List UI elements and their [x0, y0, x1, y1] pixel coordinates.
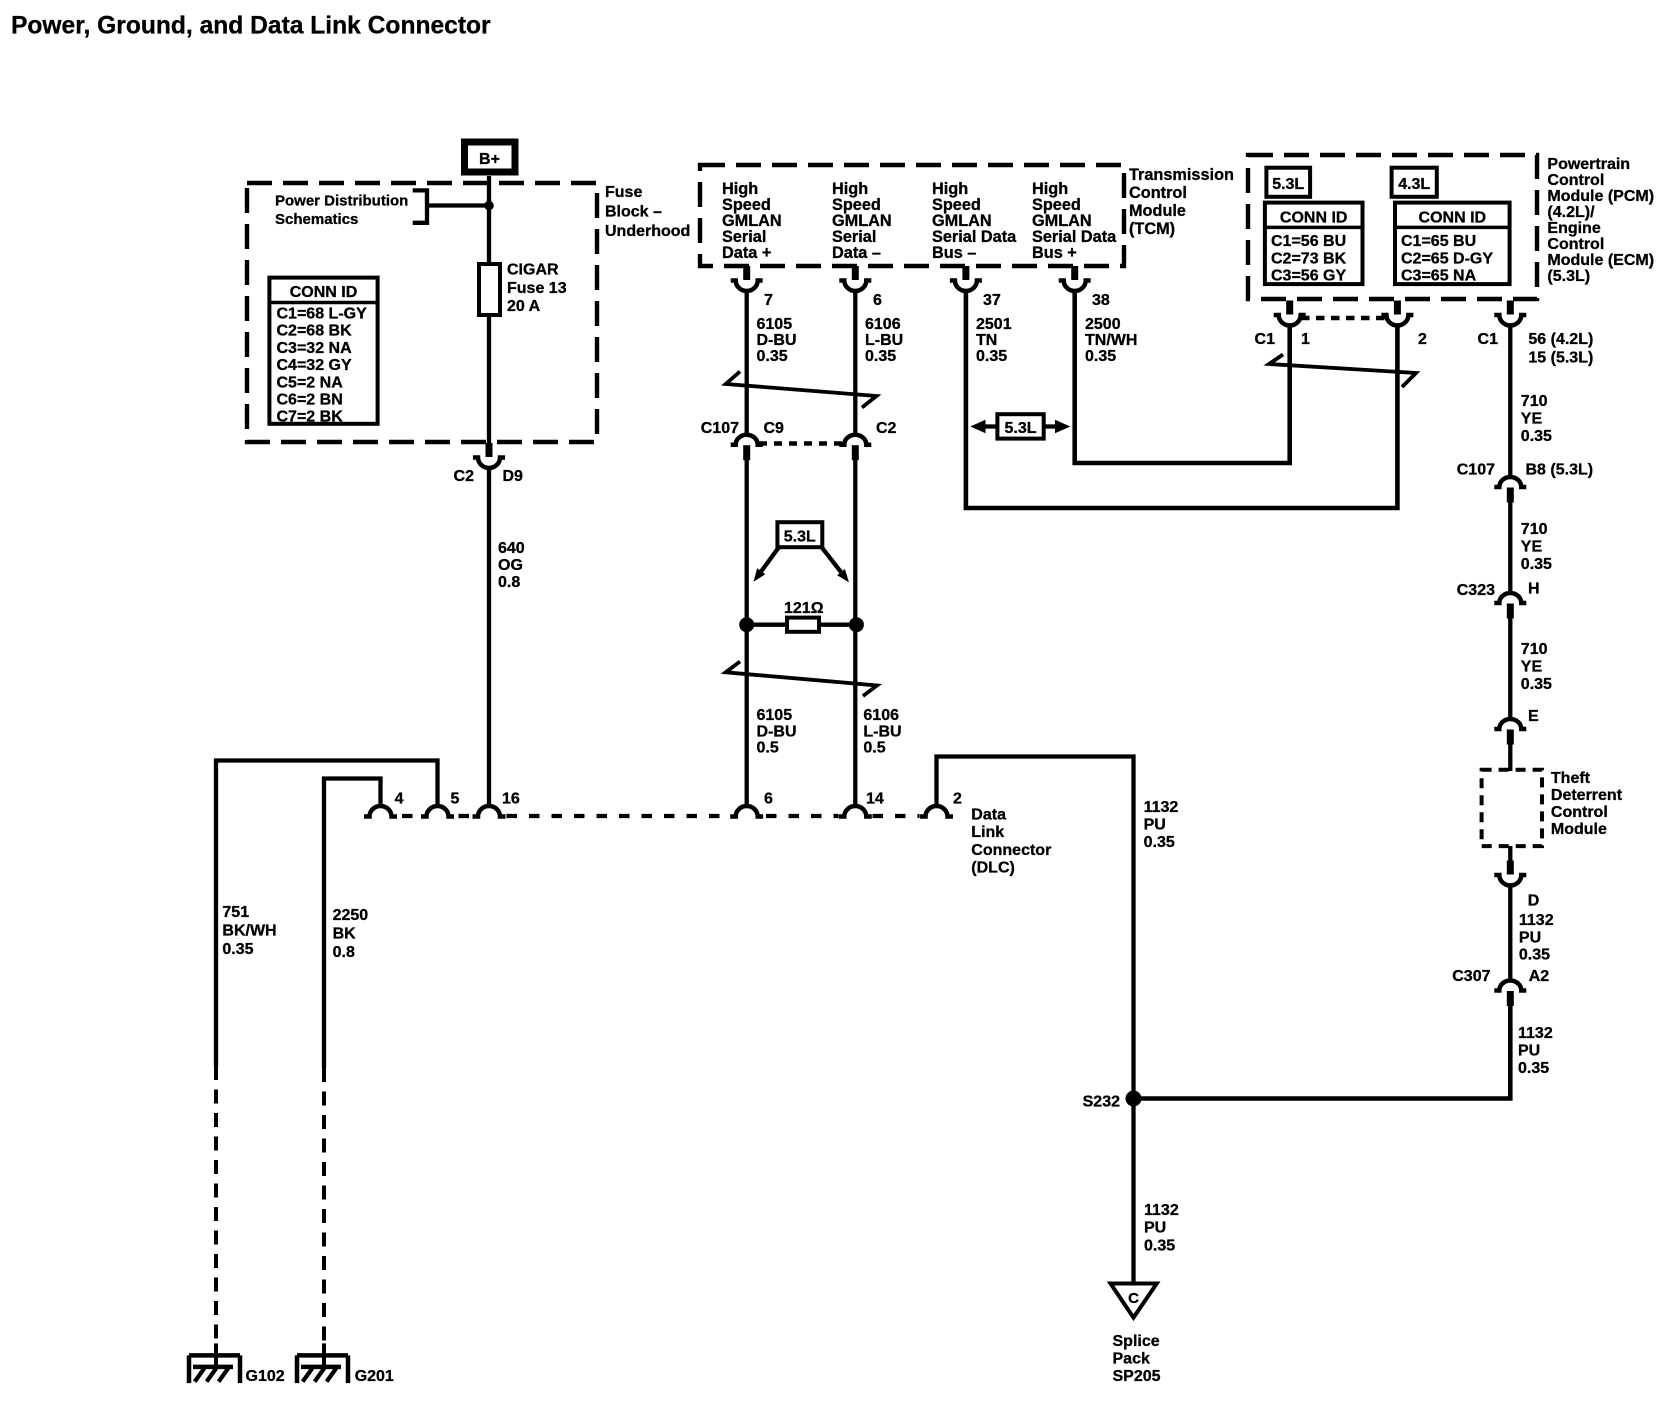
svg-text:37: 37: [983, 292, 1001, 309]
connector C307 A2: [1494, 981, 1526, 1007]
wire 2501 TN: [966, 291, 1398, 509]
svg-text:Module (PCM): Module (PCM): [1547, 188, 1654, 205]
svg-text:C2=65 D-GY: C2=65 D-GY: [1401, 251, 1493, 268]
svg-text:14: 14: [866, 791, 884, 808]
svg-text:5.3L: 5.3L: [1004, 420, 1036, 437]
wire DLC pin2 up right down to S232 and splice: [937, 757, 1134, 1284]
svg-text:0.35: 0.35: [1521, 428, 1552, 445]
svg-text:Fuse: Fuse: [605, 184, 642, 201]
svg-text:Module: Module: [1551, 821, 1607, 838]
svg-text:Control: Control: [1129, 184, 1187, 202]
label 2501 TN 0.35: [976, 316, 1012, 365]
twisted pair symbol lower: [726, 662, 877, 697]
svg-text:YE: YE: [1521, 659, 1543, 676]
svg-text:Control: Control: [1551, 804, 1608, 821]
svg-text:Block –: Block –: [605, 204, 662, 221]
svg-text:0.35: 0.35: [1518, 1060, 1549, 1077]
DLC dashed face line: [402, 814, 920, 818]
svg-text:Bus +: Bus +: [1032, 244, 1077, 262]
svg-text:5.3L: 5.3L: [1272, 176, 1304, 193]
svg-text:Theft: Theft: [1551, 770, 1591, 787]
label 6106 L-BU 0.5: [863, 707, 901, 757]
wire fuse to connector C2/D9: [487, 315, 491, 444]
dashed link pin1-pin2: [1301, 316, 1386, 321]
svg-text:(4.2L)/: (4.2L)/: [1547, 204, 1595, 221]
PCM dashed box: [1248, 155, 1537, 299]
PCM pin labels: [1255, 331, 1499, 348]
label 1132 PU 0.35 (right): [1518, 1025, 1553, 1077]
svg-text:Data +: Data +: [722, 244, 771, 262]
connector DLC pin 14: [839, 806, 872, 817]
svg-text:C9: C9: [764, 420, 785, 437]
CONN ID table (fuse block): [269, 278, 377, 426]
svg-text:Control: Control: [1547, 236, 1604, 253]
svg-text:Link: Link: [971, 824, 1004, 841]
label Fuse Block Underhood: [605, 184, 690, 240]
connector TCM pin 7: [731, 266, 763, 291]
svg-text:Schematics: Schematics: [275, 211, 358, 228]
svg-text:C1=68 L-GY: C1=68 L-GY: [277, 306, 368, 323]
wire 6106 upper: [853, 291, 857, 435]
resistor 121 ohm between wires: [739, 600, 864, 632]
connector PCM C1: [1494, 301, 1526, 326]
svg-text:1132: 1132: [1519, 912, 1554, 929]
svg-text:TN/WH: TN/WH: [1085, 332, 1137, 349]
wire to C323: [1508, 503, 1512, 594]
label 710 YE 0.35 (1): [1521, 393, 1552, 445]
svg-text:4: 4: [395, 791, 404, 808]
svg-text:Data: Data: [971, 807, 1006, 824]
TCM col1 label: [722, 180, 782, 262]
connector DLC pin 4: [364, 806, 397, 817]
svg-text:Engine: Engine: [1547, 220, 1600, 237]
svg-text:D-BU: D-BU: [757, 332, 797, 349]
svg-text:PU: PU: [1144, 817, 1166, 834]
svg-text:YE: YE: [1521, 411, 1543, 428]
svg-text:C1=56 BU: C1=56 BU: [1271, 233, 1346, 250]
svg-text:(TCM): (TCM): [1129, 220, 1175, 238]
svg-text:6106: 6106: [863, 707, 899, 724]
svg-text:(5.3L): (5.3L): [1547, 268, 1590, 285]
fuse CIGAR Fuse 13 20A: [479, 262, 567, 316]
svg-text:D9: D9: [503, 468, 524, 485]
svg-text:Power, Ground, and Data Link C: Power, Ground, and Data Link Connector: [11, 13, 491, 40]
dashed ground wire 2250: [322, 1068, 326, 1343]
connector E: [1494, 719, 1526, 745]
label 2250 BK 0.8: [333, 907, 369, 961]
TCM col2 label: [832, 180, 892, 262]
svg-text:4.3L: 4.3L: [1398, 176, 1430, 193]
label 1132 PU 0.35 (lower): [1144, 1202, 1179, 1255]
connector TCM pin 38: [1059, 266, 1091, 291]
svg-text:D: D: [1528, 893, 1540, 910]
svg-text:6106: 6106: [865, 316, 901, 333]
svg-text:C1: C1: [1478, 331, 1499, 348]
wire 2500 TN/WH: [1075, 291, 1290, 464]
svg-text:0.35: 0.35: [1144, 834, 1175, 851]
svg-text:121Ω: 121Ω: [784, 600, 824, 617]
svg-text:Fuse 13: Fuse 13: [507, 280, 567, 297]
wire 640 OG to DLC pin 16: [487, 468, 491, 807]
svg-text:Bus –: Bus –: [932, 244, 976, 262]
svg-text:C3=56 GY: C3=56 GY: [1271, 268, 1346, 285]
CONN ID table PCM 5.3L: [1265, 203, 1363, 285]
CONN ID table PCM 4.3L: [1395, 203, 1510, 285]
svg-text:5: 5: [451, 791, 460, 808]
svg-text:C307: C307: [1452, 968, 1490, 985]
svg-text:640: 640: [498, 540, 525, 557]
svg-text:B8 (5.3L): B8 (5.3L): [1526, 462, 1594, 479]
label 751 BK/WH 0.35: [222, 904, 276, 958]
label 6105 D-BU 0.5: [757, 707, 797, 757]
wire pin5 to G102: [216, 761, 438, 1067]
svg-text:C3=32 NA: C3=32 NA: [277, 340, 353, 357]
svg-text:G102: G102: [246, 1368, 285, 1385]
connector TCM pin 37: [950, 266, 982, 291]
label 6106 L-BU 0.35: [865, 316, 903, 365]
connector C2 (second): [839, 435, 871, 461]
svg-text:710: 710: [1521, 393, 1548, 410]
svg-text:0.35: 0.35: [1521, 556, 1552, 573]
label Transmission Control Module (TCM): [1129, 166, 1234, 238]
svg-text:SP205: SP205: [1113, 1368, 1161, 1385]
wire C307 down to S232 horizontal: [1134, 1006, 1511, 1099]
label 710 YE 0.35 (2): [1521, 521, 1552, 573]
connector TCM pin 6: [839, 266, 871, 291]
wire B+ to fuse: [487, 176, 491, 264]
TCM col4 label: [1032, 180, 1117, 262]
svg-text:751: 751: [222, 904, 249, 921]
svg-text:C: C: [1128, 1290, 1139, 1307]
svg-text:Pack: Pack: [1113, 1351, 1150, 1368]
svg-text:C3=65 NA: C3=65 NA: [1401, 268, 1477, 285]
svg-text:0.8: 0.8: [498, 574, 520, 591]
wire 6105 upper: [745, 291, 749, 435]
svg-text:CONN ID: CONN ID: [290, 284, 358, 301]
svg-text:C5=2 NA: C5=2 NA: [277, 374, 344, 391]
svg-text:6: 6: [873, 292, 882, 309]
svg-text:BK: BK: [333, 926, 357, 943]
svg-text:15 (5.3L): 15 (5.3L): [1528, 350, 1593, 367]
svg-text:PU: PU: [1519, 930, 1541, 947]
connector PCM pin 2: [1381, 301, 1413, 326]
svg-text:16: 16: [502, 791, 520, 808]
svg-text:S232: S232: [1083, 1094, 1120, 1111]
label 6105 D-BU 0.35: [757, 316, 797, 365]
svg-text:56 (4.2L): 56 (4.2L): [1528, 331, 1593, 348]
svg-text:C107: C107: [701, 420, 739, 437]
svg-text:0.35: 0.35: [976, 348, 1007, 365]
svg-text:2: 2: [953, 791, 962, 808]
label Powertrain Control Module: [1547, 156, 1654, 285]
dashed ground wire 751: [214, 1066, 218, 1343]
svg-text:0.35: 0.35: [757, 348, 788, 365]
svg-text:2: 2: [1418, 331, 1427, 348]
svg-text:C6=2 BN: C6=2 BN: [277, 392, 343, 409]
svg-text:Connector: Connector: [971, 842, 1051, 859]
svg-text:C7=2 BK: C7=2 BK: [277, 409, 344, 426]
label Splice Pack SP205: [1113, 1333, 1161, 1385]
svg-text:5.3L: 5.3L: [784, 529, 816, 546]
svg-text:Module: Module: [1129, 202, 1186, 220]
wire 6106 lower: [853, 460, 857, 806]
svg-text:CONN ID: CONN ID: [1280, 210, 1348, 227]
svg-text:H: H: [1528, 581, 1540, 598]
svg-text:6105: 6105: [757, 316, 793, 333]
svg-text:0.35: 0.35: [865, 348, 896, 365]
TCM col3 label: [932, 180, 1017, 262]
junction dot: [484, 201, 494, 211]
svg-text:Power Distribution: Power Distribution: [275, 193, 408, 210]
connector C107/C9: [731, 435, 763, 461]
svg-text:2501: 2501: [976, 316, 1012, 333]
4.3L small box: [1392, 168, 1437, 197]
svg-text:1: 1: [1301, 331, 1310, 348]
svg-text:2500: 2500: [1085, 316, 1121, 333]
label 2500 TN/WH 0.35: [1085, 316, 1137, 365]
svg-text:0.5: 0.5: [757, 740, 779, 757]
svg-text:CONN ID: CONN ID: [1419, 210, 1487, 227]
connector DLC pin 2: [920, 806, 953, 817]
svg-text:CIGAR: CIGAR: [507, 262, 559, 279]
svg-text:C1=65 BU: C1=65 BU: [1401, 233, 1476, 250]
label Data Link Connector (DLC): [971, 807, 1051, 877]
svg-text:PU: PU: [1144, 1220, 1166, 1237]
connector C2/D9: [473, 443, 505, 468]
svg-text:Splice: Splice: [1113, 1333, 1160, 1350]
svg-text:OG: OG: [498, 557, 523, 574]
wire PCM C1 down: [1508, 325, 1512, 477]
svg-text:Control: Control: [1547, 172, 1604, 189]
svg-text:C1: C1: [1255, 331, 1276, 348]
Power Distribution Schematics label: [275, 193, 408, 229]
label 1132 PU 0.35 (DLC branch): [1144, 799, 1179, 851]
svg-text:6105: 6105: [757, 707, 793, 724]
twisted pair symbol upper left: [726, 372, 877, 408]
label 710 YE 0.35 (3): [1521, 641, 1552, 693]
svg-text:Transmission: Transmission: [1129, 166, 1234, 184]
svg-text:C2=68 BK: C2=68 BK: [277, 323, 353, 340]
svg-text:Module (ECM): Module (ECM): [1547, 252, 1654, 269]
label 640 OG 0.8: [498, 540, 525, 591]
svg-text:1132: 1132: [1144, 799, 1179, 816]
connector C107 B8: [1494, 477, 1526, 503]
wire 1132 PU to C307: [1508, 885, 1512, 981]
splice pack triangle C: [1111, 1284, 1157, 1318]
svg-text:20 A: 20 A: [507, 298, 541, 315]
ground G102: [189, 1343, 240, 1383]
svg-text:B+: B+: [479, 151, 500, 168]
svg-text:C323: C323: [1457, 582, 1495, 599]
svg-text:G201: G201: [355, 1368, 394, 1385]
wire 6105 lower: [745, 460, 749, 806]
connector DLC pin 5: [421, 806, 454, 817]
ground G201: [297, 1343, 348, 1383]
svg-text:710: 710: [1521, 641, 1548, 658]
svg-text:Underhood: Underhood: [605, 223, 690, 240]
Theft Deterrent Control Module dashed box: [1482, 770, 1542, 846]
theft module bottom connector: [1508, 846, 1512, 861]
wire pin4 to G201: [324, 779, 381, 1069]
svg-text:BK/WH: BK/WH: [222, 923, 276, 940]
connector PCM pin 1: [1274, 301, 1306, 326]
TCM dashed box: [700, 165, 1124, 266]
svg-text:C2=73 BK: C2=73 BK: [1271, 251, 1347, 268]
B+ battery box: [465, 142, 516, 172]
svg-text:6: 6: [764, 791, 773, 808]
S232 splice dot: [1126, 1091, 1142, 1107]
wire from bracket: [427, 203, 489, 207]
connector DLC pin 6: [730, 806, 763, 817]
svg-text:C2: C2: [876, 420, 897, 437]
svg-text:YE: YE: [1521, 539, 1543, 556]
svg-text:0.5: 0.5: [863, 740, 885, 757]
bracket to wire: [413, 190, 427, 222]
svg-text:C107: C107: [1457, 462, 1495, 479]
svg-text:TN: TN: [976, 332, 997, 349]
svg-text:1132: 1132: [1518, 1025, 1553, 1042]
svg-text:E: E: [1528, 708, 1539, 725]
svg-text:A2: A2: [1529, 968, 1550, 985]
svg-text:C2: C2: [454, 468, 475, 485]
svg-text:0.35: 0.35: [1519, 947, 1550, 964]
svg-text:L-BU: L-BU: [863, 723, 901, 740]
connector DLC pin 16: [473, 806, 506, 817]
svg-text:0.35: 0.35: [1521, 676, 1552, 693]
Fuse Block - Underhood dashed box: [247, 183, 597, 442]
wire to E: [1508, 619, 1512, 720]
twisted pair symbol PCM: [1269, 355, 1416, 388]
svg-text:Deterrent: Deterrent: [1551, 787, 1623, 804]
svg-text:0.35: 0.35: [1144, 1238, 1175, 1255]
svg-text:(DLC): (DLC): [971, 859, 1015, 876]
5.3L box with arrows to both wires: [754, 522, 850, 582]
svg-text:0.35: 0.35: [1085, 348, 1116, 365]
wire to theft module: [1508, 745, 1512, 772]
svg-text:38: 38: [1092, 292, 1110, 309]
svg-text:0.35: 0.35: [222, 941, 253, 958]
svg-text:C4=32 GY: C4=32 GY: [277, 357, 352, 374]
svg-text:1132: 1132: [1144, 1202, 1179, 1219]
5.3L double arrow: [970, 414, 1070, 438]
5.3L small box: [1266, 168, 1310, 197]
svg-text:PU: PU: [1518, 1043, 1540, 1060]
svg-text:7: 7: [764, 292, 773, 309]
connector C323 H: [1494, 593, 1526, 619]
svg-text:710: 710: [1521, 521, 1548, 538]
svg-text:D-BU: D-BU: [757, 723, 797, 740]
svg-text:Data –: Data –: [832, 244, 881, 262]
svg-text:2250: 2250: [333, 907, 369, 924]
svg-text:L-BU: L-BU: [865, 332, 903, 349]
svg-text:Powertrain: Powertrain: [1547, 156, 1630, 173]
dashed link C9-C2: [759, 441, 844, 446]
svg-text:0.8: 0.8: [333, 944, 355, 961]
